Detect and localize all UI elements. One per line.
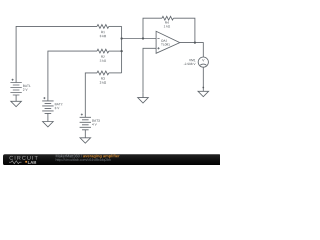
resistor R1 [97,25,109,29]
wire BAT2 top to R2 left [48,51,97,101]
label BAT2 [55,103,62,105]
label BAT3 value [92,123,97,125]
wire op-amp noninverting input to ground [143,48,156,92]
wire R4 right to output [173,18,195,42]
wire voltmeter to ground [202,67,204,91]
wire BAT3 top to R3 left [85,73,97,117]
junction feedback/inverting input [142,37,144,39]
wire BAT2 to ground [47,113,49,121]
ground at BAT3 [80,138,91,143]
battery BAT1 [10,83,21,96]
wire summing bus [121,26,123,73]
label BAT1 value [23,89,28,91]
wire BAT1 top to R1 left [16,26,97,82]
ground at voltmeter [198,91,209,96]
junction feedback/output [194,41,196,43]
CircuitLab watermark bar [3,154,221,165]
label BAT2 value [55,107,60,109]
wire feedback left vertical [143,18,162,38]
resistor R4 [162,16,173,20]
junction bus/op-amp input [120,37,122,39]
wire op-amp output to voltmeter [180,43,204,57]
resistor R2 [97,49,109,53]
label BAT1 [23,85,30,87]
battery BAT3 [80,117,91,130]
label OA1 [161,40,167,42]
label R3 value [100,81,106,83]
wire R2 right to bus [109,50,122,52]
label VM1 [189,59,195,61]
label R4 [165,21,169,23]
wire BAT3 to ground [84,130,86,138]
label VM1 reading [184,63,196,65]
ground at op-amp + input [138,92,149,103]
wire BAT1 to ground [15,95,17,101]
label R4 value [164,25,170,27]
wire R3 right to bus [109,72,122,74]
battery BAT2 [42,101,53,114]
label BAT3 [92,120,99,122]
label R2 value [100,60,106,62]
label R2 [101,56,105,58]
label OA1 model [161,43,170,45]
voltmeter V glyph [202,59,204,61]
ground at BAT2 [43,122,54,127]
node dot at voltmeter negative lead [202,87,204,89]
op-amp OA1 [156,31,180,53]
junction bus/R2 [120,50,122,52]
label R3 [101,77,105,79]
wire R1 right to bus [109,25,122,27]
label R1 [101,31,105,33]
wire bus to op-amp inverting input [122,38,157,40]
resistor R3 [97,71,109,75]
voltmeter VM1 [198,57,208,67]
ground at BAT1 [11,101,22,106]
label R1 value [100,35,106,37]
